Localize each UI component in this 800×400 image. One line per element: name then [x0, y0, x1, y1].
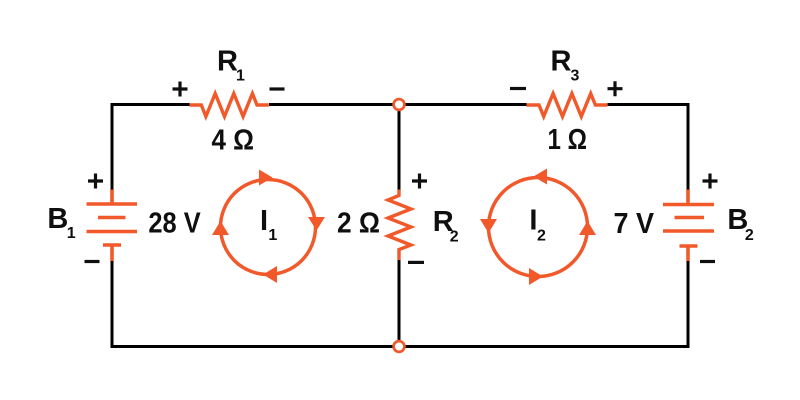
- svg-text:R: R: [217, 46, 238, 78]
- svg-text:2: 2: [450, 229, 459, 246]
- svg-text:I: I: [260, 205, 268, 237]
- svg-text:2: 2: [745, 227, 754, 244]
- svg-text:1: 1: [268, 227, 277, 244]
- svg-text:2: 2: [537, 228, 546, 245]
- svg-text:4 Ω: 4 Ω: [212, 125, 255, 157]
- svg-text:1 Ω: 1 Ω: [548, 124, 588, 156]
- svg-text:B: B: [47, 203, 68, 235]
- svg-text:2 Ω: 2 Ω: [337, 208, 380, 240]
- svg-text:1: 1: [67, 225, 76, 242]
- svg-text:R: R: [551, 45, 572, 77]
- svg-text:28 V: 28 V: [148, 208, 201, 240]
- svg-text:7 V: 7 V: [614, 208, 655, 240]
- svg-text:1: 1: [236, 68, 245, 85]
- svg-text:3: 3: [571, 68, 580, 85]
